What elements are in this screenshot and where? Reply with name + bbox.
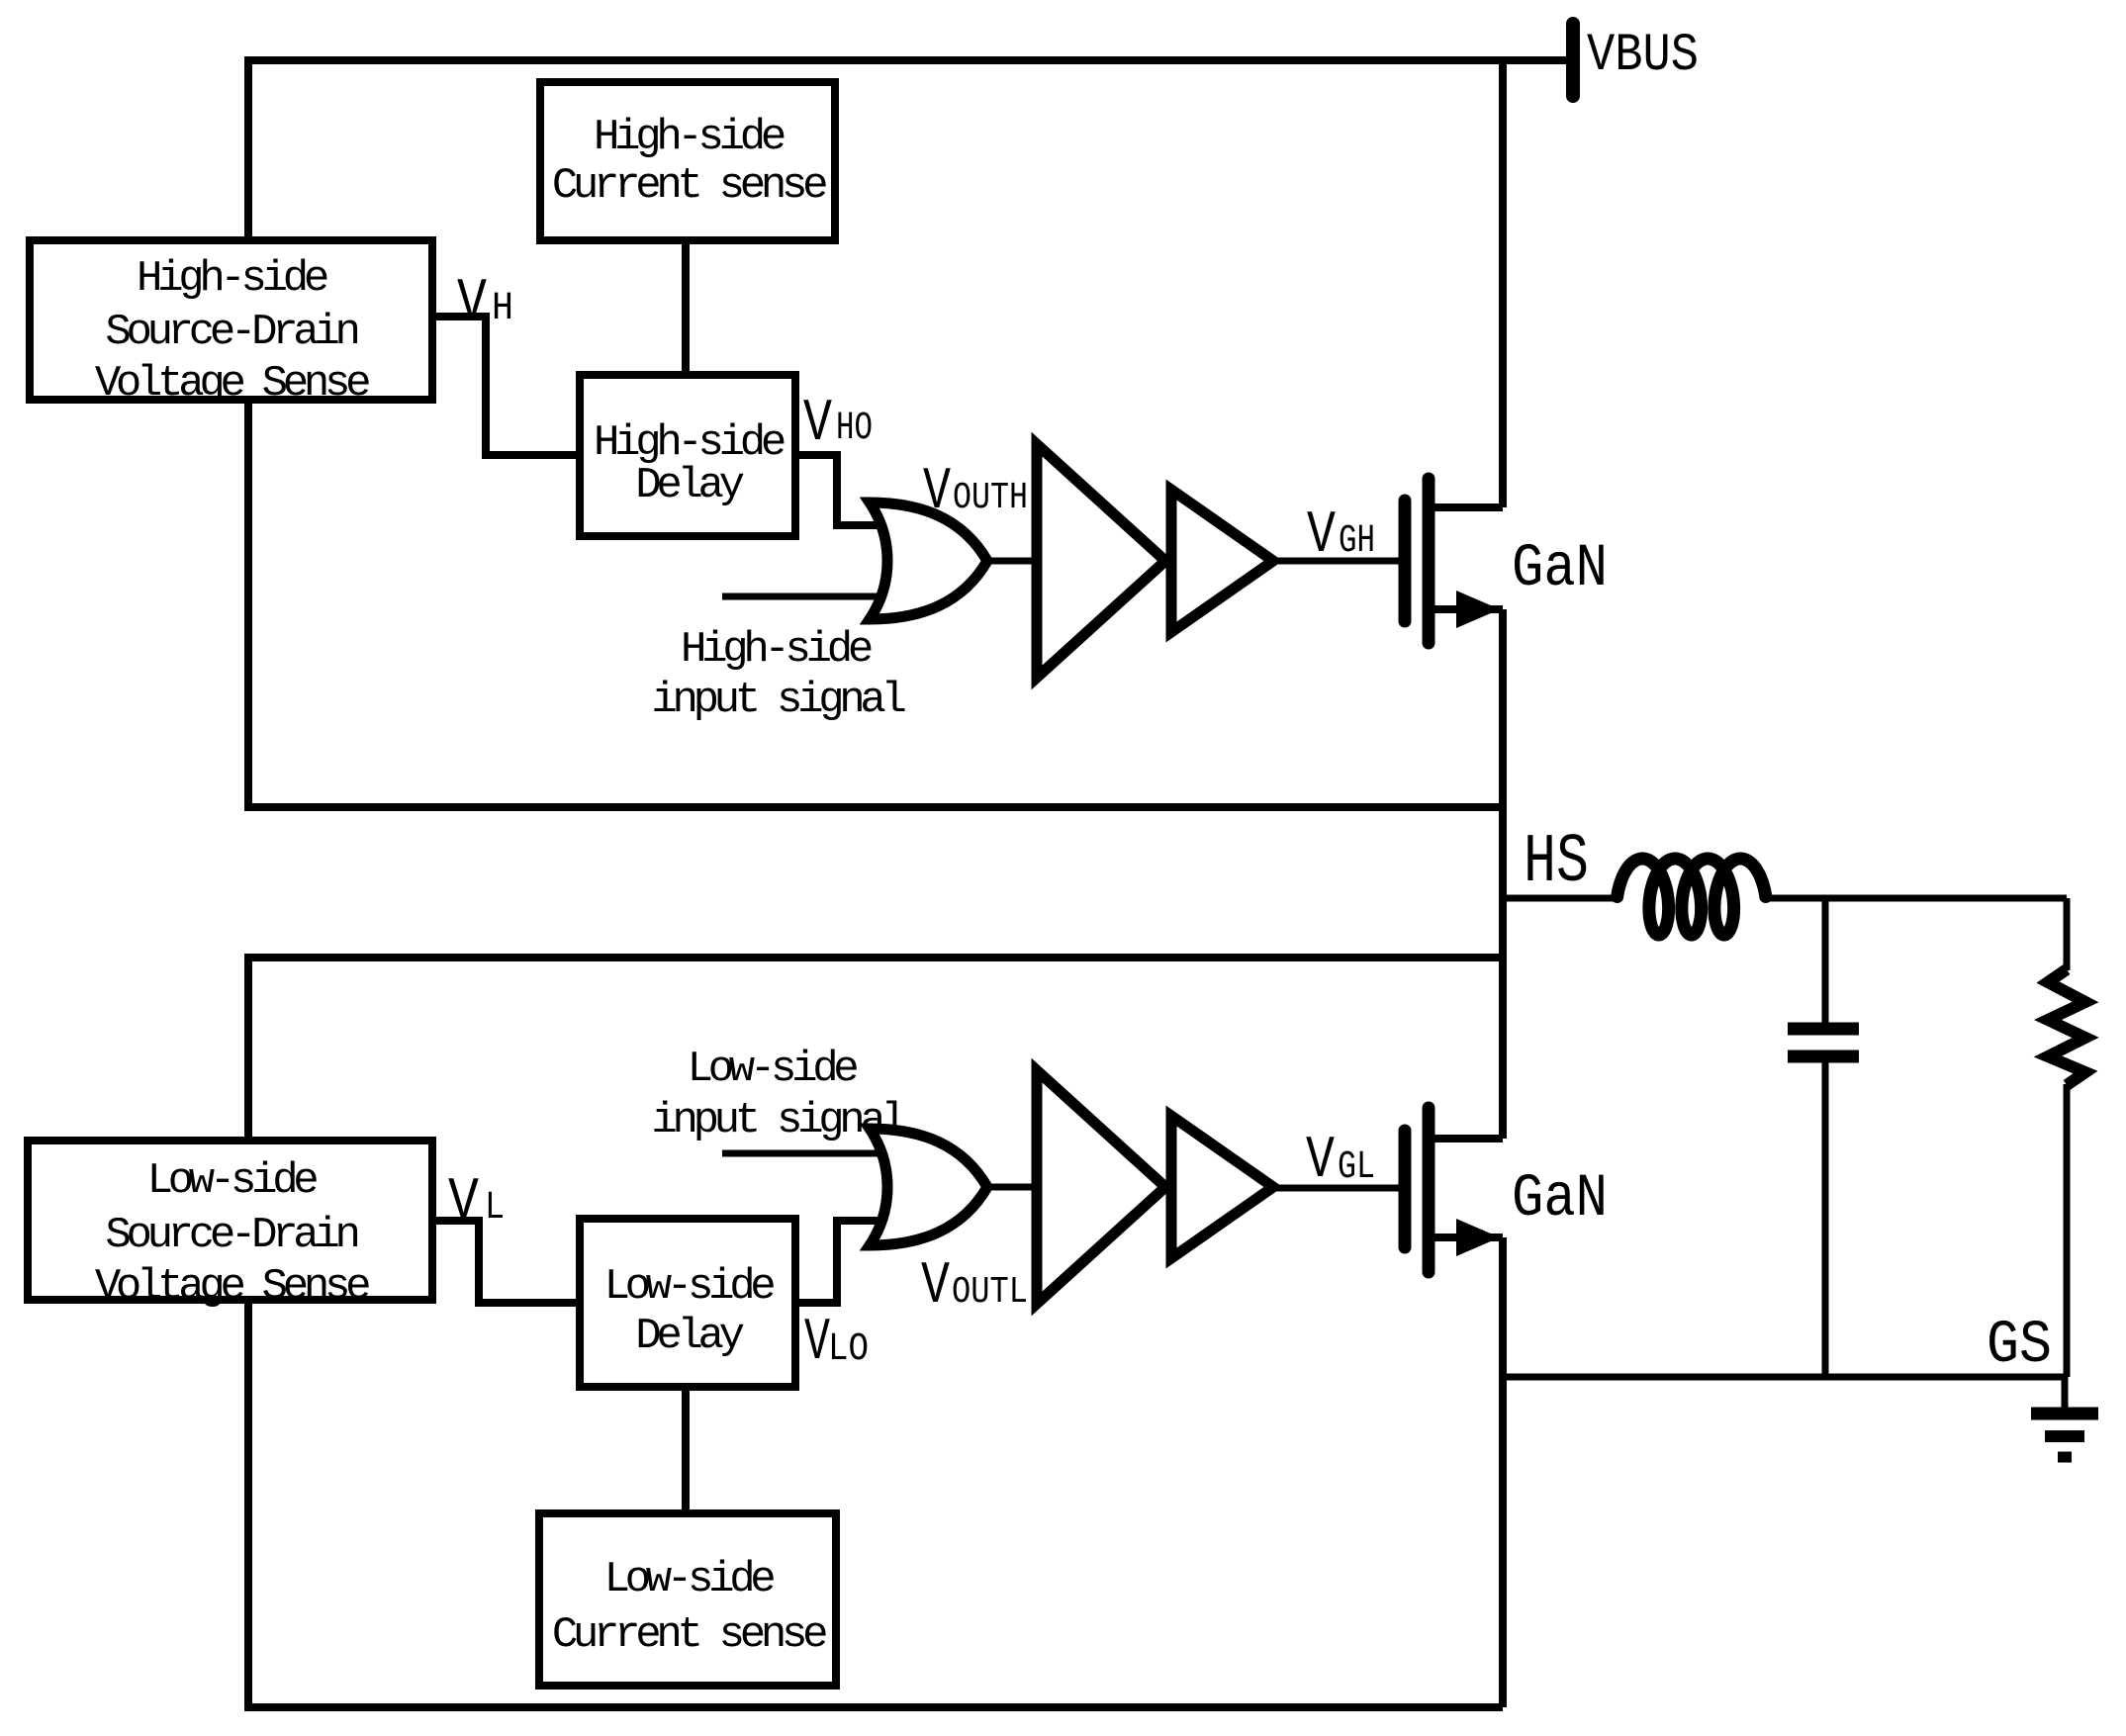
svg-text:Delay: Delay xyxy=(635,1312,743,1361)
box low-side source-drain voltage sense xyxy=(28,1141,432,1312)
wire Q2 source down to GS rail xyxy=(1499,1237,1507,1707)
wire node GS rail xyxy=(1503,1374,2065,1381)
transistor Q2 low-side GaN xyxy=(1405,1108,1503,1272)
buffer U5 low-side driver stage 1 xyxy=(1037,1070,1165,1304)
svg-text:GaN: GaN xyxy=(1512,535,1608,603)
svg-text:Low-side: Low-side xyxy=(604,1555,775,1604)
svg-text:Voltage Sense: Voltage Sense xyxy=(95,1262,369,1312)
node VOUTH label xyxy=(923,459,1028,526)
svg-text:H: H xyxy=(492,287,513,331)
OR gate U4 low-side xyxy=(870,1129,987,1245)
svg-text:GL: GL xyxy=(1338,1145,1375,1190)
svg-text:HO: HO xyxy=(836,407,873,451)
svg-text:V: V xyxy=(923,459,951,526)
box low-side current sense xyxy=(539,1513,836,1686)
svg-text:OUTL: OUTL xyxy=(952,1271,1028,1314)
svg-text:input signal: input signal xyxy=(651,676,904,725)
node VGL label xyxy=(1306,1128,1375,1195)
transistor Q1 high-side GaN xyxy=(1405,479,1503,643)
svg-text:HS: HS xyxy=(1524,824,1589,902)
wire capacitor bottom lead xyxy=(1822,1061,1829,1377)
inductor L1 xyxy=(1618,859,1766,935)
svg-text:input signal: input signal xyxy=(651,1096,904,1145)
node VHO label xyxy=(803,391,873,458)
wire low-side block left edge xyxy=(244,954,252,1707)
wire low-side OR output VOUTL xyxy=(984,1184,1041,1191)
wire node VLO route xyxy=(795,1221,883,1303)
wire low-side current sense link xyxy=(682,1387,690,1513)
svg-text:Low-side: Low-side xyxy=(147,1156,318,1206)
VBUS terminal bar xyxy=(1566,24,1580,96)
svg-text:Low-side: Low-side xyxy=(688,1045,858,1094)
wire high-side current sense link xyxy=(682,240,690,375)
svg-text:VBUS: VBUS xyxy=(1587,26,1699,86)
wire node VH route xyxy=(432,317,580,455)
svg-text:L: L xyxy=(485,1186,505,1231)
wire inductor to load node xyxy=(1763,895,2067,902)
svg-text:V: V xyxy=(804,1310,830,1377)
box high-side current sense xyxy=(540,82,835,240)
node VLO label xyxy=(804,1310,869,1377)
label high-side input signal xyxy=(651,625,904,725)
svg-text:V: V xyxy=(457,270,487,337)
svg-text:V: V xyxy=(448,1169,479,1236)
svg-text:Source-Drain: Source-Drain xyxy=(105,1211,357,1260)
svg-text:GaN: GaN xyxy=(1512,1165,1608,1233)
node VH label xyxy=(457,270,513,337)
wire node HS to inductor xyxy=(1503,895,1620,902)
svg-text:V: V xyxy=(1306,1128,1335,1195)
wire high-side drain rail xyxy=(1499,60,1507,507)
node VGH label xyxy=(1307,503,1375,570)
svg-text:High-side: High-side xyxy=(681,625,872,675)
wire node VGL to gate xyxy=(1273,1185,1405,1192)
node VL label xyxy=(448,1169,505,1236)
wire node VHO route xyxy=(795,455,883,525)
node VOUTL label xyxy=(921,1253,1028,1321)
svg-text:Current sense: Current sense xyxy=(552,161,826,211)
OR gate U1 high-side xyxy=(870,503,987,619)
capacitor C1 xyxy=(1788,1029,1859,1056)
wire high-side input signal xyxy=(722,594,879,600)
wire high-side OR output VOUTH xyxy=(984,558,1041,565)
wire Q1 source to HS to Q2 drain rail xyxy=(1499,609,1507,1139)
box high-side source-drain voltage sense xyxy=(30,240,432,409)
buffer U2 high-side driver stage 1 xyxy=(1037,444,1165,678)
svg-text:LO: LO xyxy=(828,1327,869,1372)
svg-text:GS: GS xyxy=(1987,1312,2052,1380)
wire high-side block left edge xyxy=(244,56,252,807)
svg-text:Delay: Delay xyxy=(635,461,743,510)
wire node VGH to gate xyxy=(1273,558,1405,565)
ground xyxy=(2031,1377,2098,1457)
label low-side input signal xyxy=(651,1045,904,1145)
svg-text:V: V xyxy=(921,1253,950,1321)
resistor R1 xyxy=(2048,969,2085,1085)
svg-text:Low-side: Low-side xyxy=(604,1262,775,1312)
wire top VBUS rail xyxy=(248,56,1566,64)
wire resistor top lead xyxy=(2064,898,2071,970)
wire low-side block bottom edge xyxy=(244,1703,1503,1711)
box low-side delay xyxy=(580,1219,795,1387)
svg-text:Current sense: Current sense xyxy=(552,1610,826,1660)
svg-text:Source-Drain: Source-Drain xyxy=(105,308,357,357)
svg-text:OUTH: OUTH xyxy=(953,477,1028,519)
svg-text:High-side: High-side xyxy=(137,254,327,304)
svg-text:Voltage Sense: Voltage Sense xyxy=(95,359,369,409)
svg-text:GH: GH xyxy=(1339,519,1375,564)
wire resistor bottom lead xyxy=(2064,1084,2071,1377)
buffer U3 high-side driver stage 2 xyxy=(1171,490,1273,632)
wire low-side input signal xyxy=(722,1150,879,1157)
wire node VL route xyxy=(432,1221,580,1303)
svg-text:V: V xyxy=(803,391,832,458)
buffer U6 low-side driver stage 2 xyxy=(1171,1116,1273,1258)
svg-text:High-side: High-side xyxy=(594,113,785,162)
svg-text:V: V xyxy=(1307,503,1336,570)
wire capacitor top lead xyxy=(1822,898,1829,1023)
wire high-side block bottom edge xyxy=(244,803,1503,811)
wire low-side block top edge xyxy=(244,954,1503,961)
box high-side delay xyxy=(580,375,795,536)
